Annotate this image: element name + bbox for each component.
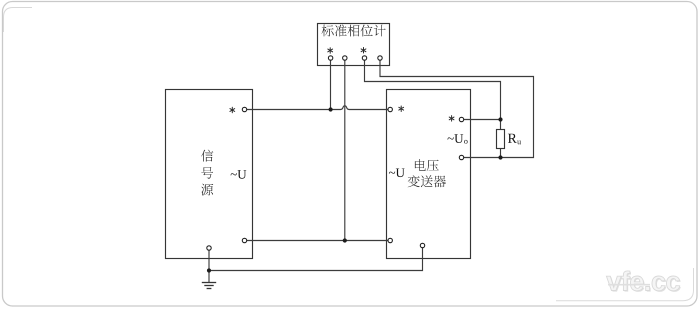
terminal phase meter pin3 xyxy=(362,56,366,60)
terminal transmitter input bottom xyxy=(388,238,392,242)
junction node A xyxy=(329,107,333,111)
wire: transmitter upper output to resistor top xyxy=(462,119,501,121)
polarity star transmitter output xyxy=(449,116,454,122)
wire: top wire signal source to transmitter with hop xyxy=(245,106,391,110)
inner card corner bottom-right xyxy=(556,268,694,301)
terminal phase meter pin2 xyxy=(343,56,347,60)
box: voltage transmitter 电压变送器 xyxy=(387,90,471,259)
label 信号源 xyxy=(201,150,213,196)
wire: phase meter pin4 to resistor bottom right loop xyxy=(380,60,534,158)
label ~U signal source xyxy=(231,170,247,179)
junction ground node xyxy=(207,268,211,272)
wire: resistor top stem xyxy=(500,120,502,130)
terminal signal source bottom-right xyxy=(242,238,246,242)
terminal transmitter output upper xyxy=(459,117,463,121)
polarity star phase-meter pin3 xyxy=(361,48,366,54)
box: standard phase meter 标准相位计 xyxy=(318,24,390,66)
wire: bottom return wire to transmitter bottom terminal xyxy=(209,248,423,271)
terminal transmitter bottom xyxy=(420,243,424,247)
junction node B xyxy=(343,238,347,242)
inner card corner top-left xyxy=(4,8,33,33)
junction resistor top xyxy=(498,117,502,121)
label 电压 xyxy=(415,159,439,171)
polarity star transmitter input xyxy=(399,106,404,112)
terminal signal source ground pin xyxy=(207,246,211,250)
junction resistor bottom xyxy=(498,155,502,159)
wire: transmitter lower output to resistor bottom xyxy=(462,157,501,159)
terminal transmitter output lower xyxy=(459,155,463,159)
wire: signal source bottom stem to ground xyxy=(208,250,210,283)
wire: phase meter pin1 down to node A xyxy=(330,60,332,110)
wire: middle wire signal source to transmitter xyxy=(245,240,391,242)
resistor Ru body xyxy=(497,130,505,149)
wire: phase meter pin3 to resistor top xyxy=(365,60,501,120)
watermark vfe.cc xyxy=(606,271,680,292)
terminal phase meter pin1 xyxy=(328,56,332,60)
wire: resistor bottom stem xyxy=(500,149,502,158)
label ~Uo output voltage xyxy=(448,134,468,144)
label Ru resistor value xyxy=(508,134,521,145)
label ~U transmitter xyxy=(389,169,405,178)
polarity star signal-source output xyxy=(230,107,235,113)
terminal phase meter pin4 xyxy=(378,56,382,60)
wire: phase meter pin2 down to node B (crosses top wire) xyxy=(344,60,346,241)
label 标准相位计 xyxy=(322,25,386,37)
terminal signal source top xyxy=(242,107,246,111)
box: signal source 信号源 xyxy=(166,90,253,259)
terminal transmitter input top xyxy=(388,107,392,111)
label 变送器 xyxy=(408,175,446,187)
polarity star phase-meter pin1 xyxy=(328,48,333,54)
ground symbol xyxy=(202,283,216,289)
